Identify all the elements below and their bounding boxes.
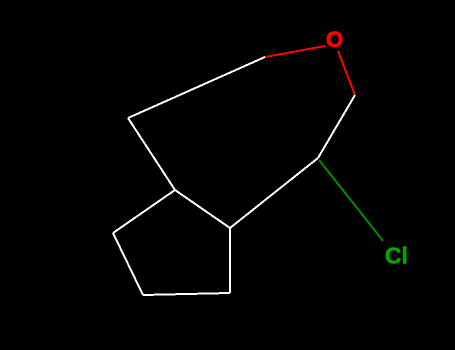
bond C6b-C6a (white) <box>229 228 231 293</box>
bond C6a-C4 ring fusion (white) <box>175 190 230 228</box>
bond C7-C6a (white) <box>230 158 318 228</box>
bond C7-CH2 (green) <box>319 160 365 218</box>
bond O-C7a (red) <box>338 51 355 95</box>
svg-text:O: O <box>326 27 343 52</box>
bond O-C2 (red) <box>265 46 325 57</box>
bond C3-C4 (white) <box>128 118 175 190</box>
bond C7a-C7 (white) <box>318 95 355 158</box>
bond C4-C5 (white) <box>113 190 175 233</box>
bond C5-C6 (white) <box>113 233 143 295</box>
bond C6-C6b (white) <box>143 293 230 295</box>
bond CH2-Cl (green) <box>365 218 383 241</box>
bond C2-C3 (white) <box>128 57 265 118</box>
svg-text:Cl: Cl <box>385 243 408 269</box>
